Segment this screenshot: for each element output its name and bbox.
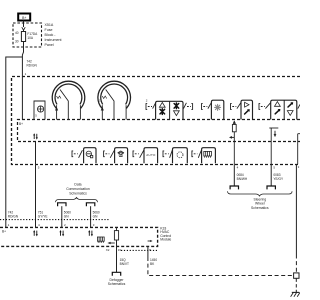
connector stub data 1 bbox=[58, 203, 66, 206]
ground wire from cluster right bbox=[295, 164, 297, 255]
wire resistor to X2 bbox=[116, 240, 118, 272]
svg-text:10A: 10A bbox=[27, 36, 34, 40]
wire branch to left rail bbox=[6, 57, 23, 227]
serial data up/down arrows in cluster bbox=[33, 133, 38, 139]
svg-text:B+: B+ bbox=[2, 230, 6, 234]
icon fan filled bbox=[174, 103, 179, 109]
brace steering wheel bbox=[228, 191, 293, 196]
svg-text:GY/YE: GY/YE bbox=[38, 215, 48, 219]
indicator unit 4 bracket bbox=[163, 150, 172, 158]
icon triangle up open bbox=[159, 102, 165, 107]
icon swoosh filled bbox=[275, 109, 280, 114]
illumination lamp U-box bbox=[34, 101, 45, 120]
wire serial data through cluster bbox=[35, 142, 37, 228]
indicator unit 1 bracket bbox=[72, 150, 82, 158]
indicator box 1 (washer fluid) bbox=[84, 148, 96, 164]
svg-text:Schematics: Schematics bbox=[69, 191, 87, 195]
gauge 2 tachometer bbox=[98, 81, 131, 119]
defog grid icon in K33 bbox=[97, 237, 104, 243]
svg-text:B+: B+ bbox=[22, 16, 26, 20]
splice junction bbox=[294, 273, 299, 278]
svg-text:Instrument: Instrument bbox=[45, 38, 62, 42]
svg-text:RD/GN: RD/GN bbox=[8, 215, 19, 219]
wire B+ to fuse block bbox=[23, 21, 25, 28]
gauge 1 speedometer bbox=[52, 81, 85, 119]
indicator box 2 (lamp out) bbox=[115, 148, 128, 164]
wire B+ inside cluster bbox=[21, 76, 23, 119]
K33 HVAC module dashed box bbox=[0, 227, 158, 246]
SWC switch element bbox=[269, 128, 278, 164]
svg-text:Block -: Block - bbox=[45, 33, 57, 37]
telltale unit B lamp bracket bbox=[202, 103, 212, 110]
icon swoosh filled bbox=[288, 102, 293, 107]
svg-text:YE/GY: YE/GY bbox=[273, 177, 284, 181]
icon swoosh filled bbox=[245, 109, 250, 114]
instrument cluster P16 dashed box bbox=[12, 77, 301, 165]
icon dashed circle bbox=[177, 152, 183, 158]
connector arrow into fuse bbox=[22, 27, 25, 30]
ground G chassis symbol bbox=[291, 292, 300, 296]
connector stub SWC 2 bbox=[267, 186, 275, 189]
fuse block name X51A Fuse Block - Instrument Panel bbox=[45, 23, 62, 47]
serial data arrows K33 pin 2 bbox=[59, 230, 64, 236]
svg-text:X51A: X51A bbox=[45, 23, 54, 27]
label Data Communication Schematics bbox=[66, 183, 90, 196]
telltale box D (traction pair) bbox=[271, 100, 297, 119]
serial data arrows K33 pin 3 bbox=[88, 230, 93, 236]
wire 742 RD/GN from fuse bbox=[22, 47, 23, 76]
svg-text:BN/VT: BN/VT bbox=[120, 262, 129, 266]
svg-text:Panel: Panel bbox=[45, 43, 54, 47]
indicator unit 3 bracket bbox=[133, 150, 144, 158]
connector stub SWC 1 bbox=[230, 186, 238, 189]
connector X2 dotted line bbox=[121, 249, 158, 251]
telltale box A (airbag pair) bbox=[156, 101, 183, 119]
label Defogger Schematics bbox=[108, 278, 126, 286]
icon triangle down open bbox=[287, 111, 293, 116]
battery B+ terminal bbox=[18, 14, 30, 21]
indicator box 3 (AUTO) bbox=[144, 148, 158, 164]
telltale unit C lamp bracket bbox=[231, 103, 241, 110]
wire 1450 BK from K33 bbox=[147, 246, 149, 257]
wire to ground bbox=[295, 279, 297, 293]
connector stub defogger bbox=[112, 272, 120, 275]
wire 0083 to steering bbox=[270, 164, 272, 186]
icon fan filled bbox=[160, 109, 165, 115]
svg-text:40: 40 bbox=[15, 31, 19, 35]
svg-text:19: 19 bbox=[118, 248, 122, 252]
svg-text:B+: B+ bbox=[19, 122, 23, 126]
icon triangle up open bbox=[275, 102, 281, 107]
label Steering Wheel Schematics bbox=[251, 197, 269, 210]
arrow ground direction in K33 bbox=[148, 240, 151, 242]
indicator box 5 (defog grid) bbox=[202, 148, 216, 164]
svg-text:GN: GN bbox=[93, 215, 98, 219]
arrow to defog icon bbox=[110, 242, 115, 244]
svg-text:Fuse: Fuse bbox=[45, 28, 53, 32]
telltale box C (security) bbox=[241, 100, 253, 119]
svg-text:X2: X2 bbox=[106, 248, 110, 252]
icon snowflake gray bbox=[215, 104, 221, 110]
serial data arrows K33 pin 4 bbox=[33, 230, 38, 236]
svg-text:Schematics: Schematics bbox=[251, 206, 269, 210]
telltale unit A lamp bracket left bbox=[146, 103, 156, 110]
fuse block X51A dashed outline bbox=[13, 23, 42, 47]
icon heater grid bbox=[204, 151, 212, 157]
clipped bracket right edge bbox=[298, 104, 300, 108]
indicator unit 5 bracket bbox=[192, 150, 202, 158]
telltale box B (low coolant) bbox=[211, 100, 223, 119]
wire 0084 to steering bbox=[233, 164, 235, 186]
telltale unit D lamp bracket bbox=[259, 103, 271, 110]
svg-text:30: 30 bbox=[15, 40, 19, 44]
connector X1 dotted line bbox=[0, 219, 110, 221]
ground wire dashed right bbox=[295, 255, 297, 274]
fuse F17DA bbox=[21, 30, 25, 47]
icon triangle right open bbox=[245, 102, 249, 107]
svg-text:RD/GN: RD/GN bbox=[27, 64, 38, 68]
brace data communication bbox=[56, 198, 98, 203]
icon triangle down open bbox=[174, 111, 180, 116]
resistor in K33 bbox=[114, 231, 118, 240]
telltale unit A lamp bracket right bbox=[184, 103, 193, 110]
wire 5060 GN left bbox=[61, 206, 63, 227]
icon crown lamp bbox=[118, 151, 124, 157]
svg-text:AUTO: AUTO bbox=[146, 153, 156, 157]
module name K33 HVAC Control Module bbox=[160, 226, 171, 241]
SWC signal element (resistor and arrow) bbox=[229, 121, 236, 164]
lamp circle plus symbol bbox=[38, 106, 44, 112]
wire 5060 GN right bbox=[90, 206, 92, 227]
svg-text:Module: Module bbox=[160, 238, 171, 242]
indicator box 4 (dashed circle) bbox=[173, 148, 188, 164]
connector stub data 2 bbox=[86, 203, 94, 206]
svg-text:BN/WH: BN/WH bbox=[237, 177, 248, 181]
indicator unit 2 bracket bbox=[104, 150, 115, 158]
svg-text:Schematics: Schematics bbox=[108, 282, 126, 286]
svg-text:GN: GN bbox=[64, 215, 69, 219]
cluster inner dashed box (logic) bbox=[18, 120, 301, 142]
clipped element right edge bbox=[298, 134, 300, 164]
icon circle minus with square bbox=[86, 151, 91, 156]
